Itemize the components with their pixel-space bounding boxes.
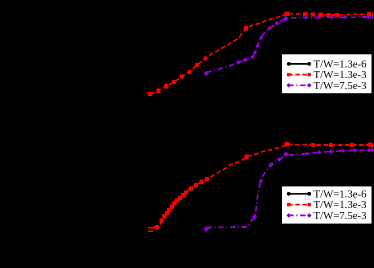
legend 2 <box>282 186 372 223</box>
solid start segment of red curve <box>148 226 160 228</box>
purple dash-dot curve T/W=7.5e-3 <box>203 15 374 76</box>
legend 1 <box>282 54 372 93</box>
red dashed curve T/W=1.3e-3 <box>148 11 374 96</box>
clipped end ticks at right edge (bottom subplot) <box>372 143 373 148</box>
svg-text:T/W=7.5e-3: T/W=7.5e-3 <box>314 80 367 92</box>
clipped end ticks at right edge (top subplot) <box>372 12 373 17</box>
purple dash-dot curve <box>203 148 374 232</box>
red dashed curve <box>148 142 374 229</box>
stray red dash near curve start <box>148 230 153 232</box>
svg-text:T/W=7.5e-3: T/W=7.5e-3 <box>314 210 367 222</box>
